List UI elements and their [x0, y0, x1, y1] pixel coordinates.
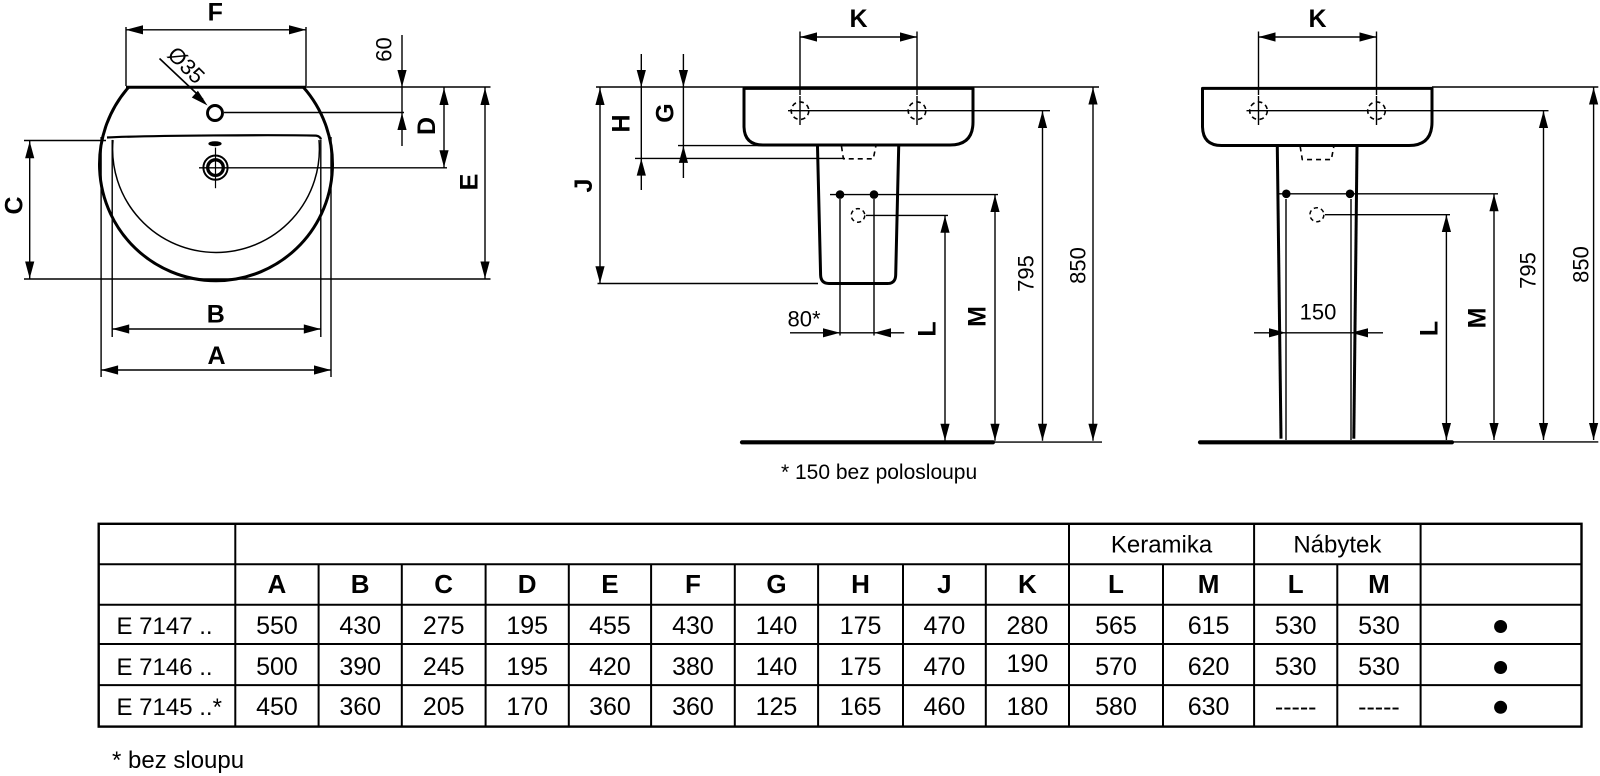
half pedestal outline — [818, 147, 899, 284]
pedestal fixing dot right — [870, 190, 879, 199]
svg-text:420: 420 — [589, 653, 631, 681]
svg-text:H: H — [851, 569, 870, 599]
dimension 60 line — [401, 35, 403, 146]
dimension K extension lines (middle) — [799, 32, 801, 96]
siphon dashed outline (right view) — [1300, 147, 1334, 160]
svg-text:380: 380 — [672, 653, 714, 681]
svg-text:L: L — [1288, 569, 1304, 599]
basin fixing hole right — [908, 102, 926, 120]
svg-text:A: A — [268, 569, 287, 599]
svg-text:175: 175 — [840, 653, 882, 681]
availability bullet row 1 — [1494, 620, 1507, 633]
svg-text:615: 615 — [1188, 612, 1230, 640]
dimension M line (right) — [1493, 194, 1495, 440]
pedestal fixing dot left (right view) — [1282, 190, 1291, 199]
top view: basin front edge — [107, 135, 321, 139]
svg-text:190: 190 — [1007, 650, 1049, 678]
150 extension line right — [1350, 199, 1352, 440]
svg-text:390: 390 — [339, 653, 381, 681]
svg-text:580: 580 — [1095, 693, 1137, 721]
top view: basin outer outline — [100, 87, 333, 281]
svg-text:K: K — [1308, 5, 1326, 33]
dimension G line — [682, 54, 684, 178]
dimension F extension lines — [125, 27, 127, 86]
J bottom reference line — [598, 283, 819, 285]
dimension 795 line (right) — [1543, 111, 1545, 440]
front view half-pedestal: top reference line — [596, 86, 1099, 88]
svg-text:A: A — [207, 342, 225, 370]
svg-text:D: D — [413, 117, 441, 135]
dimension F line — [126, 29, 306, 31]
dimension 80* extension lines — [839, 199, 841, 336]
svg-text:E 7147 ..: E 7147 .. — [117, 613, 213, 640]
dimension J line — [599, 88, 601, 284]
siphon dashed outline — [842, 146, 876, 159]
svg-text:M: M — [964, 306, 992, 327]
svg-text:G: G — [766, 569, 786, 599]
svg-text:C: C — [1, 196, 29, 214]
svg-text:* bez sloupu: * bez sloupu — [112, 747, 244, 774]
svg-text:150: 150 — [1300, 300, 1337, 325]
svg-text:850: 850 — [1568, 246, 1593, 283]
floor line extension (middle, thin) — [993, 441, 1102, 443]
top view: overflow slot — [208, 141, 221, 146]
table horizontal lines — [99, 563, 1582, 565]
svg-text:M: M — [1198, 569, 1220, 599]
top view: drain outer circle — [203, 156, 227, 180]
top view: faucet hole — [208, 106, 223, 121]
top edge reference line (right) — [306, 86, 491, 88]
dimension 850 line (right) — [1593, 88, 1595, 441]
svg-text:D: D — [518, 569, 537, 599]
svg-text:795: 795 — [1014, 255, 1039, 292]
svg-text:175: 175 — [840, 612, 882, 640]
svg-text:H: H — [608, 114, 636, 132]
table outer border — [99, 524, 1582, 727]
floor line extension (right, thin) — [1452, 441, 1598, 443]
svg-text:Keramika: Keramika — [1111, 532, 1213, 559]
outlet dashed circle — [851, 209, 865, 223]
svg-text:280: 280 — [1007, 612, 1049, 640]
dimension B extension lines — [111, 140, 113, 337]
leader line for hole diameter — [160, 59, 204, 100]
pedestal fixing holes reference line (right view) — [1278, 193, 1498, 195]
G bottom reference line — [678, 145, 817, 147]
dimension B line — [112, 328, 321, 330]
svg-text:E: E — [455, 174, 483, 191]
svg-text:195: 195 — [506, 612, 548, 640]
svg-text:360: 360 — [672, 693, 714, 721]
dimension C top extension line — [24, 140, 106, 142]
svg-text:-----: ----- — [1275, 693, 1317, 721]
svg-text:B: B — [351, 569, 370, 599]
svg-text:J: J — [937, 569, 951, 599]
svg-text:E 7146 ..: E 7146 .. — [117, 654, 213, 681]
dimension 795 line (middle) — [1042, 111, 1044, 441]
svg-text:E 7145 ..*: E 7145 ..* — [117, 694, 222, 721]
svg-text:60: 60 — [372, 37, 397, 61]
svg-text:530: 530 — [1275, 653, 1317, 681]
dimension 150 line — [1254, 332, 1383, 334]
svg-text:460: 460 — [924, 693, 966, 721]
dimension 80* line — [790, 332, 904, 334]
availability bullet row 3 — [1494, 701, 1507, 714]
pedestal outline left edge — [1277, 147, 1281, 439]
svg-text:550: 550 — [256, 612, 298, 640]
svg-text:430: 430 — [339, 612, 381, 640]
outlet dashed circle (right view) — [1310, 208, 1324, 222]
svg-text:K: K — [849, 5, 867, 33]
svg-text:G: G — [652, 103, 680, 122]
pedestal outline right edge — [1354, 147, 1357, 439]
outlet reference line (right view) — [1325, 214, 1450, 216]
svg-text:Nábytek: Nábytek — [1293, 532, 1382, 559]
H bottom reference line — [635, 157, 845, 159]
dimension K line (middle) — [800, 36, 917, 38]
svg-text:L: L — [914, 321, 942, 336]
drain horizontal centerline — [199, 167, 447, 169]
floor line (middle, thick) — [742, 440, 993, 444]
svg-text:M: M — [1368, 569, 1390, 599]
svg-text:K: K — [1018, 569, 1037, 599]
dimension M line (middle) — [994, 195, 996, 441]
basin fixing hole left — [791, 102, 809, 120]
pedestal fixing dot left — [836, 190, 845, 199]
pedestal fixing holes reference line — [830, 194, 998, 196]
dimension C line — [29, 141, 31, 279]
table vertical lines (full height) — [234, 524, 236, 727]
svg-text:570: 570 — [1095, 653, 1137, 681]
svg-text:630: 630 — [1188, 693, 1230, 721]
svg-text:165: 165 — [840, 693, 882, 721]
top view: inner bowl outline — [113, 140, 320, 252]
dimension E line — [484, 88, 486, 279]
svg-text:455: 455 — [589, 612, 631, 640]
pedestal fixing dot right (right view) — [1346, 190, 1355, 199]
basin fixing hole left (right view) — [1250, 102, 1268, 120]
svg-text:530: 530 — [1275, 612, 1317, 640]
dimension K line (right) — [1259, 36, 1377, 38]
svg-text:170: 170 — [506, 693, 548, 721]
front view full-pedestal: top reference line — [1432, 86, 1598, 88]
half-pedestal view: basin outline — [744, 88, 973, 145]
svg-text:530: 530 — [1358, 653, 1400, 681]
top view: drain inner circle — [208, 160, 224, 176]
basin fixing hole right (right view) — [1368, 102, 1386, 120]
svg-text:140: 140 — [756, 653, 798, 681]
dimension A line — [101, 369, 331, 371]
150 extension line left — [1285, 199, 1287, 440]
svg-text:245: 245 — [423, 653, 465, 681]
dimension L line (middle) — [944, 216, 946, 441]
top view: basin rim top edge — [126, 86, 306, 89]
svg-text:195: 195 — [506, 653, 548, 681]
svg-text:J: J — [570, 179, 598, 193]
svg-text:C: C — [434, 569, 453, 599]
svg-text:450: 450 — [256, 693, 298, 721]
svg-text:530: 530 — [1358, 612, 1400, 640]
svg-text:B: B — [207, 301, 225, 329]
dimension D line — [443, 88, 445, 168]
svg-text:565: 565 — [1095, 612, 1137, 640]
svg-text:850: 850 — [1065, 247, 1090, 284]
svg-text:470: 470 — [924, 653, 966, 681]
svg-text:275: 275 — [423, 612, 465, 640]
svg-text:795: 795 — [1515, 252, 1540, 289]
full-pedestal view: basin outline — [1203, 88, 1433, 145]
fixing holes reference line — [788, 110, 1050, 112]
fixing holes reference line (right view) — [1247, 110, 1549, 112]
availability bullet row 2 — [1494, 661, 1507, 674]
dimension H line — [640, 54, 642, 190]
svg-text:205: 205 — [423, 693, 465, 721]
svg-text:430: 430 — [672, 612, 714, 640]
svg-text:* 150 bez polosloupu: * 150 bez polosloupu — [781, 461, 977, 484]
svg-text:140: 140 — [756, 612, 798, 640]
bottom reference line of top view — [24, 278, 491, 280]
svg-text:360: 360 — [589, 693, 631, 721]
svg-text:80*: 80* — [787, 307, 820, 332]
faucet hole centerline — [224, 112, 404, 114]
dimension K extension lines (right) — [1258, 32, 1260, 96]
svg-text:E: E — [601, 569, 618, 599]
svg-text:500: 500 — [256, 653, 298, 681]
svg-text:M: M — [1464, 308, 1492, 329]
floor line (right, thick) — [1200, 440, 1452, 444]
svg-text:L: L — [1416, 321, 1444, 336]
svg-text:Ø35: Ø35 — [163, 42, 210, 89]
svg-text:F: F — [685, 569, 701, 599]
outlet reference line — [866, 214, 948, 216]
svg-text:180: 180 — [1007, 693, 1049, 721]
svg-text:360: 360 — [339, 693, 381, 721]
svg-text:470: 470 — [924, 612, 966, 640]
dimension A extension lines — [100, 137, 102, 377]
svg-text:L: L — [1108, 569, 1124, 599]
dimension L line (right) — [1445, 215, 1447, 440]
dimension 850 line (middle) — [1092, 88, 1094, 441]
drain vertical centerline — [215, 148, 217, 189]
svg-text:-----: ----- — [1358, 693, 1400, 721]
svg-text:F: F — [208, 0, 223, 27]
svg-text:125: 125 — [756, 693, 798, 721]
table vertical lines (below header row) — [318, 564, 320, 726]
svg-text:620: 620 — [1188, 653, 1230, 681]
